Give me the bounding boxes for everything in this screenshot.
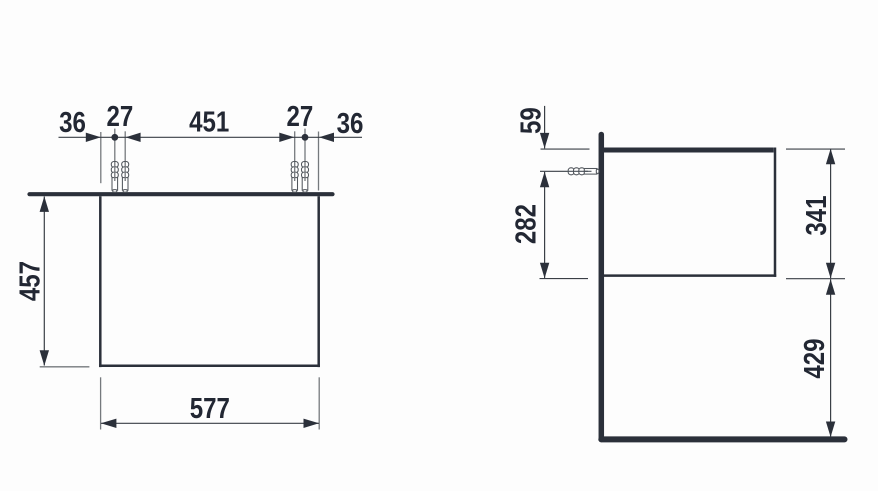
extension line cabinet bottom (side, left for 282) bbox=[540, 278, 589, 280]
label 451 bbox=[189, 105, 229, 138]
dot marker hole 1a bbox=[111, 134, 118, 141]
wall (side view, thick vertical) bbox=[599, 135, 605, 440]
extension line cabinet top (side, right for 341) bbox=[786, 148, 845, 150]
extension line hole 2a centerline bbox=[294, 131, 296, 162]
label 59 (rotated) bbox=[514, 107, 547, 134]
extension line hole 1b centerline bbox=[124, 131, 126, 162]
arrow left at cabinet right edge (dim 36) bbox=[319, 133, 334, 142]
hole centerline inside plug bbox=[584, 170, 592, 172]
label 36 right bbox=[337, 107, 364, 140]
top dimension line bbox=[59, 136, 363, 138]
svg-text:282: 282 bbox=[509, 204, 542, 244]
label 341 (rotated) bbox=[800, 195, 833, 235]
label 457 (rotated) bbox=[13, 261, 46, 301]
label 429 (rotated) bbox=[798, 339, 831, 379]
wall plug dowel 2a (front) bbox=[291, 162, 298, 193]
svg-text:36: 36 bbox=[59, 106, 86, 139]
svg-text:27: 27 bbox=[107, 100, 134, 133]
dimension 577 (front view, bottom horizontal) bbox=[101, 377, 320, 429]
label 27 left bbox=[107, 100, 134, 133]
dimension 282 (side view) bbox=[540, 172, 549, 278]
svg-text:341: 341 bbox=[800, 195, 833, 235]
extension line cabinet bottom (side, right for 341/429) bbox=[786, 278, 845, 280]
wall plug dowel 1b (front) bbox=[122, 162, 129, 193]
svg-text:59: 59 bbox=[514, 107, 547, 134]
label 577 bbox=[190, 392, 230, 425]
fixing hole centerline (side) bbox=[540, 170, 591, 172]
wall plug dowel 1a (front) bbox=[111, 162, 118, 193]
countertop (front view, thick horizontal) bbox=[30, 192, 333, 196]
extension line hole 2b centerline bbox=[304, 129, 306, 162]
dimension 341 (side view) bbox=[826, 149, 835, 278]
dimension 59 (side view) bbox=[540, 106, 549, 148]
dimension 429 (side view) bbox=[826, 279, 835, 437]
svg-text:451: 451 bbox=[189, 105, 229, 138]
label 27 right bbox=[287, 100, 314, 133]
extension line cabinet bottom (left, for 457) bbox=[40, 366, 90, 368]
svg-text:457: 457 bbox=[13, 261, 46, 301]
svg-text:577: 577 bbox=[190, 392, 230, 425]
svg-text:429: 429 bbox=[798, 339, 831, 379]
countertop profile (side view, thick top edge) bbox=[601, 148, 773, 153]
cabinet body (side view: right edge and bottom edge) bbox=[604, 148, 776, 277]
svg-text:36: 36 bbox=[337, 107, 364, 140]
arrow right at hole 2a (dim 451) bbox=[279, 133, 294, 142]
wall plug dowel (side view, horizontal) bbox=[568, 168, 599, 175]
extension line hole 1a centerline bbox=[114, 129, 116, 162]
wall plug dowel 2b (front) bbox=[302, 162, 309, 193]
label 282 (rotated) bbox=[509, 204, 542, 244]
dot marker hole 2b bbox=[302, 134, 309, 141]
cabinet body (front view rectangle) bbox=[99, 196, 320, 367]
dimension 457 (front view, left vertical) bbox=[40, 196, 49, 365]
arrow right at cabinet left edge (dim 36) bbox=[86, 133, 101, 142]
extension line top of cabinet (side, left for 59) bbox=[541, 148, 590, 150]
floor (side view, thick horizontal) bbox=[601, 436, 844, 442]
svg-text:27: 27 bbox=[287, 100, 314, 133]
label 36 left bbox=[59, 106, 86, 139]
extension line cabinet right edge bbox=[318, 132, 320, 191]
extension line cabinet left edge bbox=[100, 132, 102, 183]
arrow left at hole 1b (dim 451) bbox=[126, 133, 141, 142]
